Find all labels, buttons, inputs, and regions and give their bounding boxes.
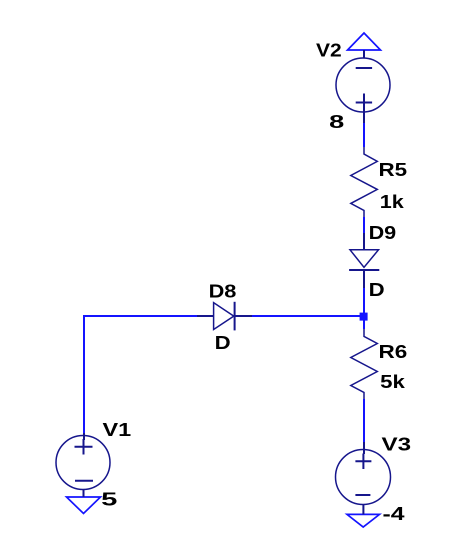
svg-text:D9: D9 <box>369 223 397 243</box>
svg-text:D8: D8 <box>209 281 237 301</box>
svg-text:R5: R5 <box>379 160 408 180</box>
svg-text:V3: V3 <box>382 434 412 454</box>
svg-text:V1: V1 <box>103 420 132 440</box>
svg-text:R6: R6 <box>379 342 408 362</box>
svg-text:D: D <box>215 333 231 353</box>
svg-text:5: 5 <box>101 489 117 509</box>
svg-text:5k: 5k <box>380 372 406 392</box>
svg-text:V2: V2 <box>316 40 342 60</box>
svg-text:-4: -4 <box>383 504 405 524</box>
svg-text:D: D <box>369 280 385 300</box>
svg-text:8: 8 <box>329 112 344 132</box>
svg-text:1k: 1k <box>380 192 405 212</box>
